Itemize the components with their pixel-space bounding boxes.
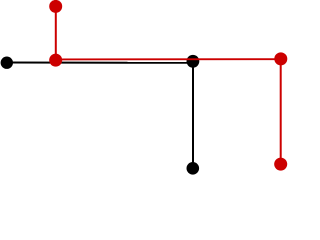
wire R3-R4 (red vertical, right) — [280, 59, 282, 164]
node R2 (junction red node) — [49, 54, 62, 67]
wire R1-R2 (red vertical, top) — [55, 6, 57, 60]
node R1 (top red node) — [49, 0, 62, 13]
node R4 (bottom-right red node) — [274, 158, 287, 171]
wire R2-R3 (red horizontal) — [56, 58, 281, 60]
node B1 (left black node) — [1, 57, 13, 69]
wire B1-B2 (black horizontal) — [7, 62, 193, 64]
node B3 (bottom black node) — [187, 162, 200, 175]
node B2 (middle black node) — [187, 55, 200, 68]
wire B2-B3 (black vertical) — [192, 61, 194, 168]
node R3 (right red node) — [274, 52, 287, 65]
